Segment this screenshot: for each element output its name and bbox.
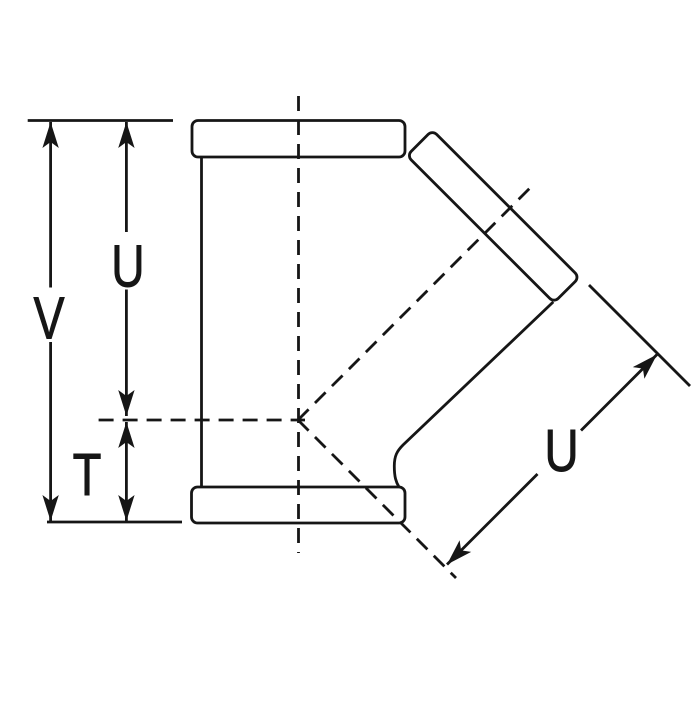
body left edge: [200, 157, 203, 487]
dimension V arrowheads: [42, 122, 58, 148]
label U (right): [544, 418, 578, 484]
svg-text:U: U: [111, 234, 144, 300]
svg-text:U: U: [544, 418, 578, 484]
bottom extension line: [47, 521, 182, 524]
top extension line: [28, 119, 173, 122]
dimension V line: [49, 122, 52, 288]
dimension T line: [125, 422, 128, 521]
centerline branch axis (45 deg): [298, 188, 530, 420]
svg-text:V: V: [33, 286, 65, 351]
extension line at branch face: [589, 285, 690, 386]
label V: [33, 286, 65, 351]
svg-text:T: T: [73, 443, 102, 508]
centerline horizontal: [99, 419, 305, 422]
centerline vertical (run axis): [297, 96, 300, 553]
dimension U-right line: [447, 474, 538, 565]
label T: [73, 443, 102, 508]
branch lower edge with fillet: [394, 302, 553, 487]
dimension U-left line: [125, 122, 128, 232]
extension line perpendicular to branch (dashed): [298, 420, 456, 578]
label U (left): [111, 234, 144, 300]
bottom coupling band: [192, 487, 406, 523]
dimension T arrowheads: [118, 422, 134, 448]
top coupling band: [192, 121, 405, 158]
dimension U-left arrowheads: [118, 122, 134, 148]
dimension U-right arrowheads: [633, 355, 657, 379]
branch coupling band: [407, 130, 580, 303]
